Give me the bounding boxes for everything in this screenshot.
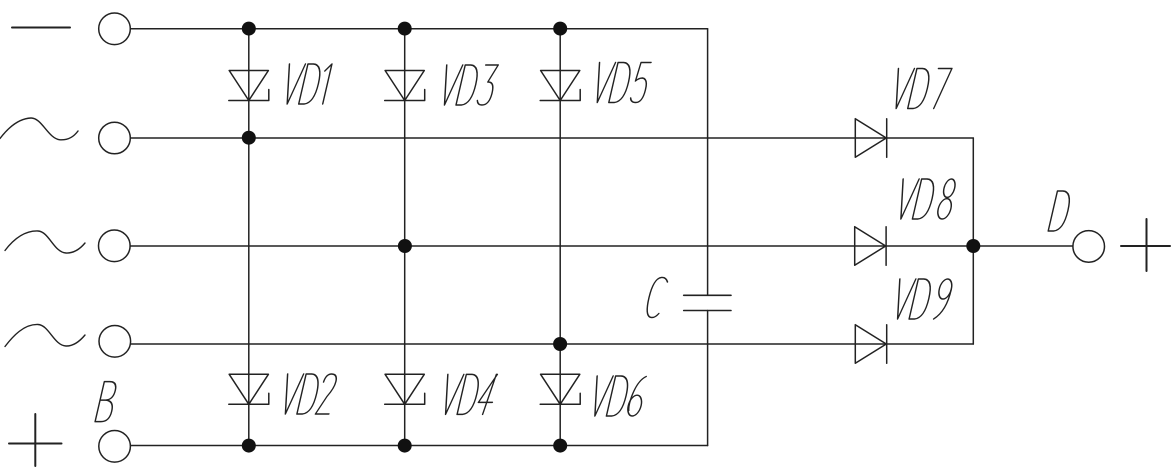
capacitor C plates [684,295,731,310]
label VD2 [278,374,338,414]
junction node top rail / column 3 [553,22,567,36]
label VD4 [439,374,499,414]
wire capacitor branch upper [707,29,709,296]
junction node rail 4 / column 3 [553,337,567,351]
terminal circle row 2 [99,122,131,154]
diode VD1 [229,71,269,101]
minus polarity symbol (top left) [12,27,70,29]
diode VD7 [855,119,886,158]
terminal circle row 1 [99,13,131,45]
wire phase rail 4 [130,343,973,345]
diode VD9 [855,325,886,364]
AC wave symbol row 3 [5,231,85,253]
AC wave symbol row 4 [5,324,85,346]
diode VD4 [385,374,425,404]
junction node rail 3 / column 2 [398,239,412,253]
junction node top rail / column 2 [398,22,412,36]
wire phase rail 2 [131,137,974,139]
terminal circle row 4 [99,326,131,358]
terminal circle row 3 [99,230,131,262]
label VD5 [590,63,651,103]
wire column 1 vertical [248,29,250,446]
diode VD5 [540,71,580,101]
label D (output terminal) [1048,191,1072,231]
diode VD3 [385,71,425,101]
wire capacitor branch lower [707,311,709,446]
diode VD8 [855,227,886,266]
terminal circle B (bottom) [99,431,131,463]
label VD3 [438,65,499,105]
AC wave symbol row 2 [0,118,78,140]
junction node bottom rail / column 1 [242,439,256,453]
wire column 3 vertical [559,29,561,446]
wire phase rail 3 [130,245,973,247]
junction node bottom rail / column 3 [553,439,567,453]
junction node top rail / column 1 [242,22,256,36]
label VD6 [588,376,648,416]
plus polarity symbol (bottom left) [9,414,62,466]
wire top rail [131,28,708,30]
junction node rail 2 / column 1 [242,131,256,145]
terminal circle D (output) [1073,231,1105,263]
label VD7 [889,69,952,109]
diode VD2 [229,374,269,404]
plus polarity symbol (right) [1121,219,1170,271]
junction node bottom rail / column 2 [398,439,412,453]
label VD9 [891,279,954,319]
wire output to terminal D [973,245,1073,247]
junction node right bus / output [966,239,980,253]
diode VD6 [540,374,580,404]
wire column 2 vertical [404,29,406,446]
label B (bottom terminal) [95,382,118,422]
wire bottom rail [131,445,708,447]
label C (capacitor) [644,277,668,317]
label VD8 [894,179,958,219]
label VD1 [280,64,332,104]
wire right bus vertical [972,138,974,344]
